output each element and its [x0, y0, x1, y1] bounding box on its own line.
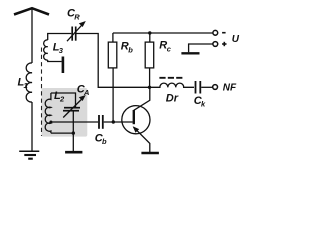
shield box (gray) around L2/CA [42, 88, 88, 137]
svg-text:b: b [128, 45, 133, 54]
ground near plus terminal [181, 52, 199, 54]
ground bar (L3) [62, 57, 65, 74]
wire CR right to top corner, down, feedback wire to collector [77, 34, 150, 88]
transistor Q1 (PNP) [122, 106, 150, 134]
svg-text:R: R [74, 12, 80, 21]
svg-text:2: 2 [59, 94, 65, 103]
wire L3 bottom [48, 60, 62, 62]
inductor L3 [44, 40, 48, 60]
ground (earth) under L1 [19, 151, 39, 158]
node CA/L2 bottom junction [72, 131, 75, 134]
svg-text:1: 1 [24, 81, 28, 90]
plus sign [222, 42, 226, 46]
inductor L1 [26, 63, 32, 102]
resistor Rc [148, 31, 151, 34]
wire loop CR/L3 left side [48, 34, 72, 41]
base bar [133, 110, 135, 124]
wire loop bottom inside box [51, 132, 73, 134]
wire tap to Cb [51, 121, 98, 123]
capacitor Cb [99, 115, 103, 129]
wire Cb to base [104, 121, 133, 123]
collector lead [134, 87, 150, 110]
capacitor CA (variable) [63, 99, 82, 118]
node collector junction [148, 86, 151, 89]
ground bar under CA [65, 151, 82, 154]
coupling dashed line [41, 48, 43, 137]
choke core dashed line [159, 77, 183, 79]
wire CA bottom lead down to ground [72, 111, 74, 151]
node base junction [112, 120, 115, 123]
svg-text:U: U [232, 34, 240, 45]
wire plus terminal to ground [189, 44, 213, 52]
wire L1 bottom to ground [31, 102, 33, 151]
choke Dr [150, 83, 195, 87]
antenna [14, 8, 49, 63]
svg-text:A: A [83, 88, 89, 97]
resistor Rb [112, 33, 114, 42]
inductor L2 [45, 93, 51, 133]
terminal U plus [213, 42, 218, 47]
node tap on L2 [49, 121, 52, 124]
minus sign [222, 32, 226, 34]
svg-text:NF: NF [223, 82, 237, 93]
svg-text:Dr: Dr [166, 93, 179, 105]
terminal U minus [213, 30, 218, 35]
svg-text:b: b [102, 137, 107, 146]
supply rail [113, 32, 213, 34]
capacitor CR (variable) [67, 25, 82, 42]
ground under emitter [141, 152, 159, 155]
capacitor Ck [196, 81, 201, 94]
emitter lead with arrow [134, 127, 150, 152]
terminal NF [213, 85, 218, 90]
wire loop top inside box [51, 93, 76, 107]
